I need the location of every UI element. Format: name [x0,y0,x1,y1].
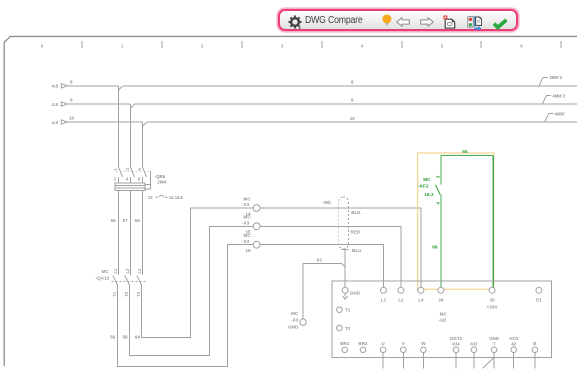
svg-text:MC: MC [244,215,252,220]
wire net 9 source arrow [52,98,74,107]
svg-text:MC: MC [423,177,431,183]
device terminal L2 [398,287,404,302]
svg-text:L1: L1 [381,298,387,303]
breaker QB6 pole 2 contact [125,167,134,183]
contactor QA12 pole 1 contact [112,268,118,297]
svg-text:3: 3 [436,175,442,178]
device terminal T2 [337,325,351,331]
wire net 10 horizontal [67,122,577,126]
DWG Compare toolbar [278,9,518,31]
svg-text:MC: MC [440,311,448,316]
previous arrow icon [396,17,410,27]
svg-text:18.3: 18.3 [424,192,434,198]
wire 9 gauge riser label 4mm2 [542,93,566,104]
svg-text:4MM´2: 4MM´2 [549,75,562,80]
svg-text:GND: GND [288,325,299,330]
change highlight yellow box [418,153,494,289]
breaker QB6 thermal overload box [115,183,151,191]
svg-text:4.8: 4.8 [52,120,59,125]
svg-text:1: 1 [121,43,124,48]
svg-text:3: 3 [281,43,284,48]
svg-text:T2: T2 [124,291,129,297]
svg-text:+20V: +20V [487,304,499,309]
svg-text:L4: L4 [418,298,424,303]
green wire drop to terminal 30 [492,155,494,287]
svg-text:4: 4 [361,43,364,48]
svg-text:W: W [421,341,426,346]
terminal X3-14 [242,196,260,216]
svg-text:GND: GND [489,336,500,341]
wire net 9 horizontal [67,104,577,108]
svg-text:-X3: -X3 [242,239,250,244]
svg-text:L2: L2 [398,298,404,303]
svg-text:16: 16 [246,248,252,253]
svg-text:4: 4 [126,177,129,182]
svg-text:8: 8 [70,79,73,84]
svg-text:BLK: BLK [351,210,361,215]
breaker label QB6 [154,174,166,185]
svg-text:K/2: K/2 [470,342,478,347]
wire 57 breaker to contactor pole2 [123,191,131,276]
svg-text:64: 64 [135,335,141,340]
wire 65 green top [441,149,493,156]
svg-text:8: 8 [351,80,354,85]
svg-text:T2: T2 [345,326,351,331]
svg-text:4.8: 4.8 [52,102,59,107]
svg-text:2: 2 [201,43,204,48]
device terminal AO1 42 [509,336,519,369]
wire drop L3 to breaker [142,122,144,167]
export snapshot document icon [467,15,482,30]
svg-text:42: 42 [511,342,517,347]
svg-text:MC: MC [102,269,110,274]
svg-text:L2: L2 [125,268,130,274]
svg-text:E1: E1 [536,298,542,303]
device terminal T1 [337,307,351,313]
column ruler ticks and numbers [41,41,561,48]
svg-text:L1: L1 [113,268,118,274]
svg-text:MC: MC [244,196,252,201]
cable shield drain bar [342,248,349,250]
svg-text:4MM´2: 4MM´2 [553,93,566,98]
wire 55 breaker to contactor pole1 [111,191,119,276]
wire net 8 horizontal [67,86,577,90]
wire RED terminal to L2 [260,226,401,287]
svg-text:T1: T1 [345,308,351,313]
svg-text:AO1: AO1 [509,336,519,341]
breaker QB6 pole 3 contact [137,167,146,183]
svg-text:59: 59 [135,218,141,223]
svg-text:57: 57 [123,218,129,223]
svg-text:2: 2 [114,177,117,182]
contactor QA12 linkage dashed [112,281,147,283]
wire 58 route to terminal X3-15 [122,226,253,355]
device terminal BR2 [358,341,368,353]
next arrow icon [420,17,434,27]
svg-text:55: 55 [111,218,117,223]
svg-text:-X3: -X3 [242,202,250,207]
svg-text:5: 5 [441,43,444,48]
svg-text:MC: MC [244,233,252,238]
svg-text:0: 0 [41,43,44,48]
svg-text:-KF2: -KF2 [418,183,429,189]
svg-text:6: 6 [520,43,523,48]
contactor QA12 pole 2 contact [124,268,130,297]
gear icon [288,15,302,29]
device label U2 [439,311,448,322]
wire 64 route to terminal X3-14 [135,208,253,340]
drawing frame corner bevel [4,36,10,42]
svg-text:13: 13 [148,195,153,200]
contactor QA12 pole 3 contact [136,268,142,297]
svg-text:-QA12: -QA12 [96,276,110,281]
wire BLU terminal to L1 [260,245,384,288]
svg-text:10: 10 [350,116,356,121]
terminal X3-16 [242,233,260,253]
svg-text:T: T [493,342,496,347]
wire drop L2 to breaker [130,104,132,167]
svg-text:BR1: BR1 [340,341,350,346]
toolbar label [305,15,363,26]
device terminal K2 [470,342,478,369]
svg-text:1: 1 [113,168,118,171]
cable shield drain wire to device GND [344,249,346,287]
svg-text:b1: b1 [317,257,323,262]
svg-text:24: 24 [438,298,444,303]
breaker QB6 pole 1 contact [113,167,122,183]
svg-text:MC: MC [291,311,299,316]
wire b1 shield to terminal X3-GND [303,257,345,319]
svg-text:56: 56 [110,335,116,340]
device terminal E1 [536,287,542,302]
svg-text:L3: L3 [137,268,142,274]
green wire upper drop to contact KF2 [440,155,442,184]
device terminal 30 +20V [487,287,499,309]
breaker QB6 trip linkage riser [149,171,151,185]
import changes document icon [443,15,457,29]
wire 66 green to terminal 24 [432,195,441,288]
device U2 enclosure [332,281,552,358]
device terminal GND T [483,336,500,369]
svg-text:2M4: 2M4 [157,180,166,185]
svg-text:B: B [533,341,537,346]
svg-text:-X3: -X3 [291,317,299,322]
wire 59 breaker to contactor pole3 [135,191,143,276]
svg-text:30: 30 [490,298,496,303]
svg-text:T1: T1 [112,291,117,297]
drawing frame top border [10,35,577,37]
svg-text:GND: GND [350,290,361,295]
confirm check icon [492,18,509,31]
svg-text:65: 65 [462,149,468,155]
svg-text:5: 5 [137,168,142,171]
svg-text:4MM´: 4MM´ [555,112,566,117]
svg-text:4.8: 4.8 [52,84,59,89]
wire 8 midspan number [351,80,354,85]
svg-text:-Wb: -Wb [322,200,331,205]
terminal X3-15 [242,215,260,235]
terminal X3-GND [288,311,306,330]
device terminal 24 [438,287,444,302]
svg-text:9: 9 [70,98,73,103]
svg-text:V: V [402,341,406,346]
wire 9 midspan number [351,98,354,103]
contact KF2 green [418,175,442,204]
wire net 10 source arrow [52,115,75,125]
device terminal B [532,341,538,369]
svg-text:66: 66 [432,245,438,251]
svg-text:-X3: -X3 [242,221,250,226]
breaker aux contact annotation 13 14 14.8 [148,195,183,200]
wire BLK terminal to L4 [260,208,421,287]
wire 8 gauge riser label 4mm2 [539,75,563,86]
svg-text:-U2: -U2 [439,318,447,323]
device terminal GND top [342,287,361,299]
svg-text:K/4: K/4 [453,342,461,347]
device terminal DGT1 K4 [450,336,463,369]
svg-text:3: 3 [125,168,130,171]
device terminal V [401,341,407,369]
svg-text:6: 6 [138,177,141,182]
device terminal BR1 [340,341,350,353]
drawing frame left border [3,43,5,366]
svg-text:9: 9 [351,98,354,103]
svg-text:-QB6: -QB6 [154,174,165,179]
svg-text:T3: T3 [136,291,141,297]
svg-text:BR2: BR2 [358,341,368,346]
svg-text:BLU: BLU [352,248,362,253]
cable Wb dashed marker [322,197,348,249]
svg-text:58: 58 [122,335,128,340]
wire 56 route to terminal X3-16 [110,245,253,367]
device terminal L4 [418,287,424,302]
svg-text:DGT1: DGT1 [450,336,463,341]
wire 10 midspan number [350,116,356,121]
breaker QB6 linkage dashed [116,170,151,172]
device terminal U [380,341,386,369]
svg-text:10: 10 [69,115,75,120]
source arrow wire 8 [52,79,74,88]
contactor QA12 label [96,269,110,281]
device terminal L1 [381,287,387,302]
svg-text:14 14.8: 14 14.8 [169,195,183,200]
svg-text:RED: RED [351,229,361,234]
device terminal W [421,341,427,369]
svg-text:U: U [381,341,385,346]
wire drop L1 to breaker [118,86,120,167]
light bulb icon [381,14,393,30]
wire 10 gauge riser label 4mm [545,112,566,123]
